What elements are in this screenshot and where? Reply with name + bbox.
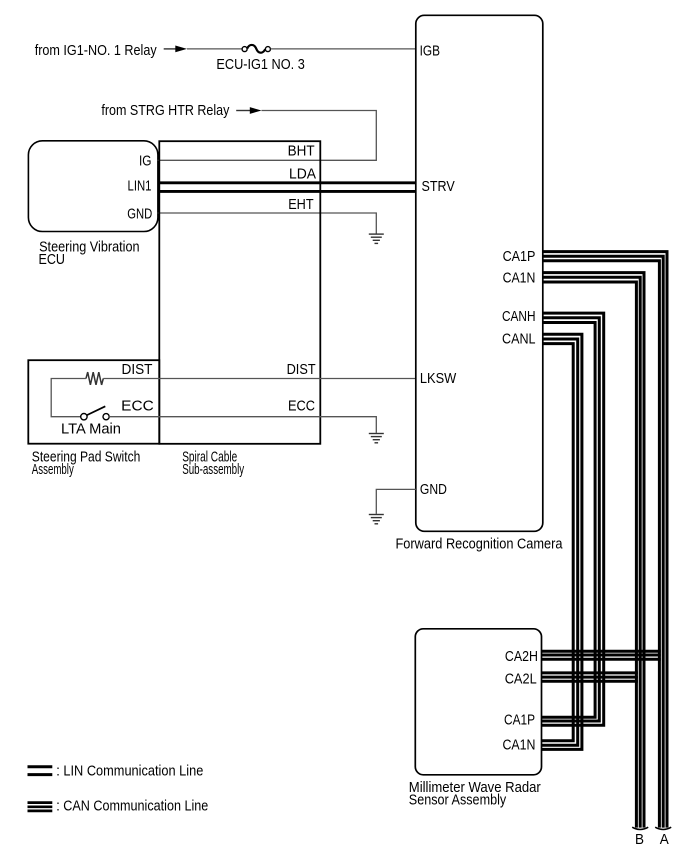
caption Steering Pad Switch Assembly [32, 450, 141, 478]
svg-text:Forward Recognition Camera: Forward Recognition Camera [396, 536, 564, 552]
svg-text:CA2L: CA2L [505, 672, 537, 688]
wire CAN bus camera CA1P to connector A [543, 252, 667, 828]
svg-text:LKSW: LKSW [420, 371, 457, 387]
svg-text:ECU-IG1 NO. 3: ECU-IG1 NO. 3 [216, 57, 304, 73]
svg-text:DIST: DIST [122, 362, 153, 378]
wire STRG HTR to BHT [262, 111, 377, 161]
wire IG to BHT row [158, 159, 321, 161]
switch S1 LTA Main [81, 406, 109, 420]
legend LIN sample [28, 767, 53, 775]
svg-text:: CAN Communication Line: : CAN Communication Line [56, 799, 208, 815]
ground G1 [369, 234, 384, 243]
svg-text:CA1N: CA1N [503, 738, 536, 754]
svg-text:LTA Main: LTA Main [61, 421, 121, 437]
wire CAN bus camera CA1N to connector B [543, 273, 644, 828]
caption Millimeter Wave Radar Sensor Assembly [409, 780, 541, 808]
wire [187, 48, 242, 50]
svg-text:Sub-assembly: Sub-assembly [182, 462, 245, 478]
svg-text:LIN1: LIN1 [128, 179, 152, 195]
svg-text:CANH: CANH [502, 309, 536, 325]
svg-text:CA1P: CA1P [504, 713, 535, 729]
wire LIN communication line LIN1-LDA-STRV [158, 183, 416, 192]
svg-text:BHT: BHT [288, 144, 315, 160]
wire left loop [51, 379, 86, 417]
wire CAN radar CA2H to bus A (T junction) [541, 651, 661, 659]
svg-text:EHT: EHT [288, 197, 314, 213]
svg-text:: LIN Communication Line: : LIN Communication Line [56, 763, 203, 779]
svg-text:ECU: ECU [39, 252, 66, 268]
svg-text:CANL: CANL [502, 332, 536, 348]
ground G3 [369, 515, 384, 524]
caption Spiral Cable Sub-assembly [182, 450, 245, 479]
svg-text:A: A [660, 832, 669, 848]
wire to IGB [271, 48, 416, 50]
svg-text:CA1P: CA1P [503, 249, 536, 265]
svg-text:CA2H: CA2H [505, 649, 538, 665]
ECU U1 Steering Vibration ECU [28, 141, 158, 232]
legend CAN sample [28, 803, 53, 811]
wire DIST row to LKSW [103, 378, 416, 380]
arrow A2 [236, 107, 261, 114]
svg-text:GND: GND [420, 482, 447, 498]
switch box Steering Pad Switch Assembly [28, 360, 159, 444]
svg-text:LDA: LDA [289, 167, 316, 183]
svg-text:Sensor Assembly: Sensor Assembly [409, 792, 507, 808]
ECU U2 Forward Recognition Camera [416, 15, 543, 531]
wire CAN bus camera CANH to radar CA1P [541, 313, 604, 725]
svg-text:STRV: STRV [422, 179, 455, 195]
svg-text:Assembly: Assembly [32, 462, 74, 478]
connector end B [632, 827, 648, 829]
svg-text:GND: GND [127, 207, 152, 223]
svg-text:IGB: IGB [420, 43, 440, 59]
svg-text:from STRG HTR Relay: from STRG HTR Relay [101, 103, 230, 119]
svg-text:from IG1-NO. 1 Relay: from IG1-NO. 1 Relay [35, 43, 158, 59]
wire camera GND to ground [376, 489, 416, 514]
ground G2 [369, 434, 384, 443]
connector end A [655, 827, 671, 829]
svg-text:DIST: DIST [287, 362, 316, 378]
wire CAN bus camera CANL to radar CA1N [541, 334, 582, 749]
svg-text:ECC: ECC [121, 399, 154, 415]
wire ECC row to ground [109, 417, 376, 433]
wire CAN radar CA2L to bus B (T junction) [541, 673, 638, 681]
svg-text:ECC: ECC [288, 399, 315, 415]
arrow A1 [164, 46, 187, 53]
fuse ECU-IG1 NO. 3 [242, 45, 270, 53]
connector box Spiral Cable Sub-assembly [159, 141, 320, 444]
resistor R1 [86, 372, 103, 385]
svg-text:B: B [635, 832, 644, 848]
ECU U3 Millimeter Wave Radar Sensor Assembly [415, 629, 541, 775]
svg-text:CA1N: CA1N [503, 271, 536, 287]
svg-text:IG: IG [139, 153, 152, 169]
caption Steering Vibration ECU [39, 240, 140, 269]
wire GND to EHT row and ground [158, 213, 377, 234]
